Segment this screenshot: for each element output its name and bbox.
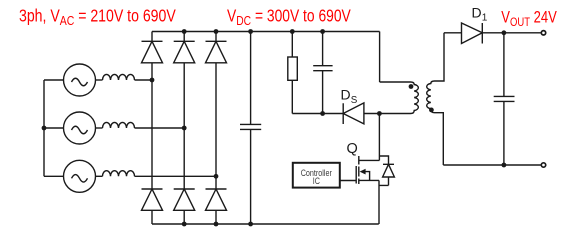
svg-text:D: D [472, 5, 482, 21]
capacitor snubber: plates [313, 66, 332, 71]
wire: primary top lead [380, 81, 411, 83]
wire: secondary bottom lead down to output return [435, 113, 444, 165]
wire: snubber cap bottom lead [322, 71, 324, 114]
wire: source 2 to inductor 2 [96, 127, 103, 129]
capacitor output: plates [494, 96, 515, 101]
wire: inductor 2 to bridge leg 2 [135, 127, 185, 129]
label Q [347, 141, 358, 157]
transistor Q (MOSFET): source lead [359, 179, 379, 181]
AC source V3 (phase 3) [64, 160, 96, 192]
wire: D1 anode wire [444, 32, 462, 34]
wire: DC- bottom rail [152, 223, 379, 225]
node: bottom rail leg 3 [214, 222, 219, 227]
svg-text:Q: Q [347, 141, 358, 157]
node: output return junction [502, 163, 507, 168]
wire: output cap bottom lead [503, 101, 505, 165]
wire: source 1 to inductor 1 [96, 79, 103, 81]
node: snubber cap bottom [320, 111, 325, 116]
node: top rail snubber cap [320, 29, 325, 34]
node: bottom rail leg 2 [182, 222, 187, 227]
wire: bridge leg 1 segments [151, 32, 153, 225]
diode bridge upper leg3 [206, 41, 227, 63]
label D1 [472, 5, 488, 24]
diode bridge upper leg2 [174, 41, 195, 63]
wire: gate lead from controller [340, 180, 356, 182]
inductor L3 (phase 3) [103, 171, 135, 177]
wire: left input bus vertical [43, 80, 45, 176]
label Ds [341, 87, 358, 107]
wire: drain node down [378, 114, 380, 161]
AC source V1 (phase 1) [64, 64, 96, 96]
wire: bridge leg 2 segments [183, 32, 185, 225]
wire: bridge leg 3 segments [215, 32, 217, 225]
diode bridge upper leg1 [142, 41, 163, 63]
wire: top rail down to primary top [379, 32, 381, 83]
inductor L1 (phase 1) [103, 74, 135, 80]
controller IC box [293, 163, 340, 188]
diode D1 (output rectifier) [462, 23, 483, 44]
label 3ph VAC = 210V to 690V [19, 7, 176, 28]
body diode of Q [379, 164, 394, 185]
wire: stub bus to source 1 [44, 79, 64, 81]
terminal: VOUT - [541, 163, 545, 167]
wire: stub bus to source 3 [44, 175, 64, 177]
node: phase 3 to leg 3 [214, 174, 219, 179]
svg-text:VOUT 24V: VOUT 24V [501, 9, 557, 29]
node: bus junction phase 2 [42, 126, 47, 131]
wire: DC+ top rail [152, 31, 380, 33]
label VOUT 24V [501, 9, 557, 29]
node: top rail DC-link cap [248, 29, 253, 34]
diode bridge lower leg2 [174, 189, 195, 210]
node: output + junction [502, 30, 507, 35]
wire: stub bus to source 2 [44, 127, 64, 129]
svg-text:S: S [351, 95, 358, 106]
label Controller IC [301, 168, 332, 186]
wire: clamp bottom wire to Ds anode-side [292, 113, 343, 115]
inductor L2 (phase 2) [103, 122, 135, 128]
transistor Q (MOSFET): body lead with arrow [362, 172, 370, 181]
transistor Q (MOSFET): channel segments [358, 156, 360, 184]
transformer primary winding [411, 82, 419, 114]
svg-text:VDC = 300V to 690V: VDC = 300V to 690V [227, 7, 351, 28]
node: top rail leg 3 [214, 29, 219, 34]
node: bottom rail DC-link cap [248, 222, 253, 227]
diode bridge lower leg1 [142, 189, 163, 210]
capacitor DC-link: plates [240, 124, 261, 129]
transistor Q (MOSFET): gate bar [355, 166, 357, 184]
svg-text:IC: IC [313, 176, 320, 186]
wire: snubber resistor top lead [291, 32, 293, 58]
svg-text:3ph, VAC = 210V to 690V: 3ph, VAC = 210V to 690V [19, 7, 176, 28]
node: top rail snubber resistor [290, 29, 295, 34]
wire: secondary top lead up to D1 [435, 33, 445, 81]
wire: inductor 1 to bridge leg 1 [135, 79, 153, 81]
wire: jog to body diode cathode [379, 156, 388, 164]
transformer secondary polarity dot [429, 108, 434, 113]
resistor (snubber clamp) [288, 57, 298, 80]
node: drain junction on primary bottom [377, 111, 382, 116]
wire: source 3 to inductor 3 [96, 175, 103, 177]
label VDC = 300V to 690V [227, 7, 351, 28]
wire: snubber resistor bottom lead [291, 80, 293, 113]
wire: source down to bottom rail [378, 180, 380, 224]
transformer primary polarity dot [409, 84, 414, 89]
wire: drain horizontal [359, 159, 380, 161]
terminal: VOUT + [541, 31, 545, 35]
svg-text:D: D [341, 87, 351, 103]
wire: output cap top lead [503, 33, 505, 97]
wire: D1 cathode to + terminal [482, 32, 540, 34]
capacitor DC-link: leads [250, 32, 252, 225]
wire: snubber cap top lead [322, 32, 324, 66]
node: phase 2 to leg 2 [182, 126, 187, 131]
wire: Ds to primary bottom / drain node [364, 113, 411, 115]
node: phase 1 to leg 1 [150, 78, 155, 83]
AC source V2 (phase 2) [64, 112, 96, 144]
wire: output return rail [443, 164, 540, 166]
diode bridge lower leg3 [206, 189, 227, 210]
diode Ds (clamp) [343, 103, 364, 124]
wire: inductor 3 to bridge leg 3 [135, 175, 217, 177]
svg-text:1: 1 [482, 13, 488, 24]
node: top rail leg 2 [182, 29, 187, 34]
transformer secondary winding [427, 81, 435, 113]
